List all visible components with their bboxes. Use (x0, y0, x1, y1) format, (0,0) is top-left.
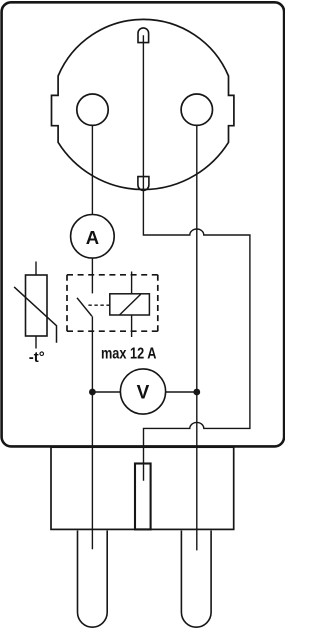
adapter body (2, 2, 285, 446)
socket hole L (left) (77, 94, 108, 125)
ammeter A (71, 215, 115, 259)
coil lead bottom stub (131, 315, 133, 337)
earth wire: top slot to earth contact (with crossover hops) (143, 35, 250, 480)
bottom keying slot (138, 177, 149, 191)
coil lead top stub (131, 272, 133, 294)
left pin (78, 531, 108, 628)
wire: switch to left pin (91, 316, 93, 549)
thermistor diagonal with foot (14, 287, 56, 343)
thermistor lead bottom (35, 336, 37, 349)
voltmeter V (120, 369, 165, 414)
voltmeter wire (92, 391, 196, 393)
svg-text:-t°: -t° (29, 349, 45, 366)
switch blade (77, 298, 92, 316)
svg-text:max 12 A: max 12 A (101, 346, 157, 363)
relay coil (110, 294, 150, 315)
plug base (51, 447, 234, 529)
junction dot left (89, 389, 96, 396)
thermistor body (26, 275, 48, 336)
socket hole N (right) (181, 94, 212, 125)
junction dot right (193, 389, 200, 396)
wire: N hole to right pin (196, 125, 198, 550)
mechanical link (dashed) (88, 304, 109, 306)
socket recess outline with earth-clip bumps (52, 19, 234, 189)
top keying slot (138, 28, 149, 43)
svg-text:V: V (137, 383, 150, 404)
earth contact (135, 464, 151, 530)
wire: ammeter to switch (91, 258, 93, 294)
thermistor lead top (35, 262, 37, 276)
right pin (181, 531, 211, 628)
wire: L hole to ammeter (91, 125, 93, 215)
relay enclosure (dashed) (67, 275, 158, 331)
svg-text:A: A (86, 227, 99, 248)
